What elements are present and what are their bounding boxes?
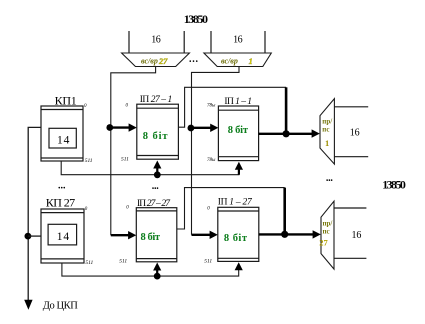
block IP1-27	[218, 207, 259, 261]
svg-text:511: 511	[85, 260, 93, 266]
arrow up into IP1-1	[235, 162, 243, 170]
wire arrow into IP27-27	[111, 234, 129, 236]
svg-text:...: ...	[152, 181, 160, 192]
block KP27	[41, 209, 84, 263]
wire demux2 stem	[192, 67, 240, 235]
svg-text:8 біт: 8 біт	[143, 131, 169, 142]
svg-text:16: 16	[233, 35, 243, 46]
svg-text:КП1: КП1	[55, 94, 77, 108]
svg-text:78ы: 78ы	[207, 104, 216, 109]
node address line bottom	[154, 273, 161, 280]
bus lines into demux 1	[129, 31, 184, 53]
svg-text:До ЦКП: До ЦКП	[43, 300, 78, 311]
svg-text:ІП 1 – 1: ІП 1 – 1	[224, 97, 252, 107]
svg-text:14: 14	[57, 231, 70, 243]
node KP27 branch	[25, 233, 32, 240]
wire thick drop to mux2	[283, 188, 286, 235]
svg-text:пс: пс	[322, 126, 329, 134]
demux trapezoid vc/vr 27	[122, 53, 190, 67]
wire KP1 address line	[61, 161, 239, 175]
svg-text:511: 511	[121, 156, 129, 162]
wire arrow into IP27-1	[111, 126, 130, 128]
svg-text:27: 27	[319, 238, 328, 248]
arrow up into IP1-27	[235, 262, 243, 270]
svg-text:13850: 13850	[184, 12, 208, 26]
svg-text:8 біт: 8 біт	[228, 125, 249, 136]
wire to KP27	[28, 235, 41, 237]
node output mux2	[281, 231, 288, 238]
svg-text:78ы: 78ы	[207, 158, 216, 163]
wire arrow into IP1-27	[192, 234, 211, 236]
mux trapezoid pr/ps 27	[321, 201, 334, 269]
wire arrow into IP1-1	[192, 127, 212, 129]
mux trapezoid pr/ps 1	[320, 99, 334, 165]
svg-text:16: 16	[352, 230, 362, 241]
node address line top	[154, 171, 161, 178]
svg-text:16: 16	[350, 128, 360, 139]
svg-text:ІП 27 – 27: ІП 27 – 27	[137, 199, 171, 209]
block IP27-1	[137, 104, 179, 159]
svg-text:13850: 13850	[382, 178, 406, 192]
svg-text:511: 511	[119, 259, 127, 265]
wire thick drop to mux1	[285, 87, 288, 134]
svg-text:пр/: пр/	[322, 118, 333, 126]
node output mux1	[283, 130, 290, 137]
arrow to CKP	[24, 300, 32, 310]
svg-text:пс: пс	[323, 228, 330, 236]
svg-text:...: ...	[189, 54, 199, 65]
svg-text:511: 511	[204, 259, 212, 265]
wire IP27-1 output riser	[178, 87, 286, 127]
svg-text:16: 16	[151, 35, 161, 46]
wire demux1 stem	[111, 67, 156, 236]
bus lines into demux 2	[211, 31, 265, 53]
svg-text:вс/вр: вс/вр	[221, 57, 238, 66]
svg-text:27: 27	[158, 56, 168, 66]
node on write line 1	[188, 125, 195, 132]
svg-text:1: 1	[325, 138, 329, 148]
node on write line 27	[106, 124, 113, 131]
svg-text:ІП 1 – 27: ІП 1 – 27	[218, 197, 253, 207]
mux2 output lines	[334, 208, 366, 258]
svg-text:...: ...	[326, 173, 334, 184]
block IP1-1	[218, 106, 258, 161]
svg-text:1: 1	[249, 56, 253, 66]
arrow up into IP27-1	[156, 168, 158, 175]
wire KP common vertical to CKP	[28, 127, 41, 300]
svg-text:пр/: пр/	[323, 220, 334, 228]
svg-text:ІП 27 – 1: ІП 27 – 1	[140, 95, 173, 105]
arrow up into IP27-27	[156, 270, 158, 277]
svg-text:8 біт: 8 біт	[141, 232, 161, 243]
wire KP27 address line	[62, 263, 239, 276]
svg-text:вс/вр: вс/вр	[141, 57, 158, 66]
block KP1	[41, 106, 83, 161]
wire IP1-27 output to mux2	[259, 233, 314, 235]
mux1 output lines	[334, 107, 368, 157]
wire IP1-1 output to mux1	[259, 133, 313, 135]
demux trapezoid vc/vr 1	[204, 53, 271, 67]
svg-text:...: ...	[58, 181, 66, 192]
svg-text:14: 14	[57, 135, 70, 147]
block IP27-27	[136, 208, 177, 262]
wire IP27-27 output riser	[177, 188, 285, 229]
svg-text:8 біт: 8 біт	[224, 233, 248, 244]
svg-text:КП 27: КП 27	[46, 196, 75, 210]
svg-text:511: 511	[85, 158, 93, 164]
